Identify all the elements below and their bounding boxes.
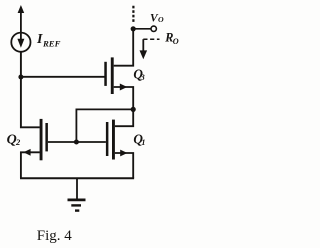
svg-text:2: 2 xyxy=(15,137,21,147)
svg-text:Fig. 4: Fig. 4 xyxy=(37,228,73,244)
svg-text:I: I xyxy=(36,32,43,47)
svg-text:1: 1 xyxy=(141,138,145,147)
svg-text:O: O xyxy=(173,37,179,46)
svg-text:O: O xyxy=(158,15,164,24)
svg-text:REF: REF xyxy=(42,38,61,48)
svg-text:3: 3 xyxy=(140,73,145,82)
